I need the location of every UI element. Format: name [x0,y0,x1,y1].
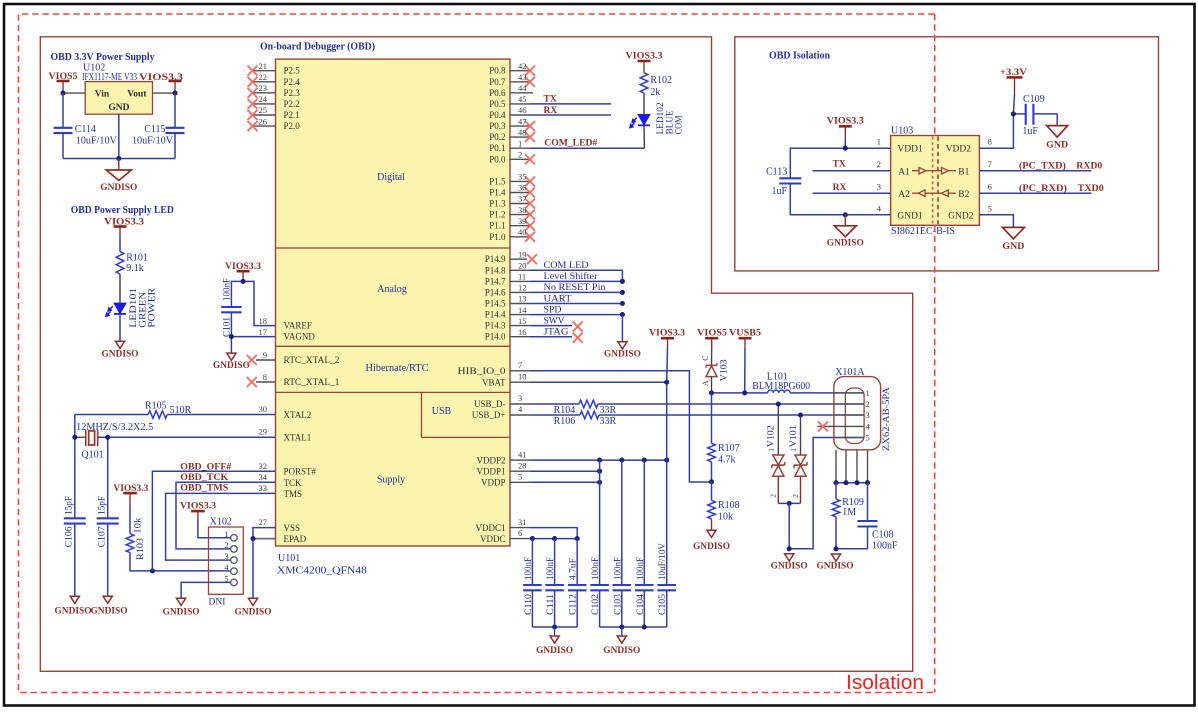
svg-text:GNDISO: GNDISO [603,646,640,656]
junction VDDP1/C102 [597,469,602,474]
svg-text:25: 25 [259,105,268,115]
svg-text:VIOS3.3: VIOS3.3 [104,217,144,227]
wire VDD1 net [790,148,890,178]
isolator U103 internal isolation barrier [932,137,934,225]
svg-text:100nF: 100nF [872,540,898,551]
net TX wire to U103 A1 [813,170,891,172]
U101 USB sub-box [421,392,423,437]
svg-text:22: 22 [259,72,268,82]
svg-text:DNI: DNI [209,597,226,607]
svg-text:5: 5 [518,472,522,482]
svg-text:TXD0: TXD0 [1078,184,1104,194]
ground GNDISO under LED101 [115,341,124,348]
svg-text:1M: 1M [842,507,856,518]
svg-text:10k: 10k [718,512,733,523]
ground GNDISO under C111 [554,627,556,636]
svg-text:B2: B2 [958,190,969,200]
svg-text:V102: V102 [765,425,775,447]
svg-text:R108: R108 [718,500,740,511]
svg-text:6: 6 [988,182,992,192]
wire Vout to VIOS3.3 [153,92,176,94]
svg-text:RX: RX [544,106,558,116]
svg-text:GNDISO: GNDISO [536,646,573,656]
regulator U102 body [85,82,152,115]
pin 21 P2.5 (no connect) [253,70,276,72]
svg-text:OBD Isolation: OBD Isolation [769,51,830,62]
svg-text:P14.9: P14.9 [485,254,506,264]
svg-text:PORST#: PORST# [284,467,317,477]
svg-text:VIOS5: VIOS5 [49,72,78,82]
svg-text:19: 19 [518,249,527,259]
svg-text:1: 1 [789,448,798,452]
svg-text:17: 17 [259,327,268,337]
svg-text:VSS: VSS [284,523,301,533]
wire LED101 to ground [119,314,121,341]
svg-text:32: 32 [259,461,268,471]
junctions on VDDC rail [530,536,535,541]
connector X102 pin 5 [231,579,238,586]
svg-text:P14.6: P14.6 [485,287,506,297]
OBD Isolation region box [735,37,1159,271]
svg-text:TX: TX [833,160,846,170]
pin 10 VBAT wire [510,381,530,383]
svg-text:GNDISO: GNDISO [213,361,250,371]
pin 6 B2 net (PC_RXD) TXD0 wire [979,192,1091,194]
svg-text:8: 8 [263,372,267,382]
junction bus UART [620,301,625,306]
svg-text:10uF/10V: 10uF/10V [658,543,668,580]
wire VDDC ground bus [532,626,577,628]
svg-text:C110: C110 [524,594,534,615]
junction bus SPD [620,312,625,317]
ground GNDISO under R109 [831,554,840,561]
svg-text:+3.3V: +3.3V [1000,68,1027,78]
ground GND at C109 [1047,126,1068,138]
svg-text:P14.5: P14.5 [485,299,506,309]
svg-text:48: 48 [518,127,527,137]
svg-text:C108: C108 [872,530,894,541]
net OBD_TCK wire to TCK [176,482,276,549]
TVS diode V102 [777,404,779,455]
U101 Analog/Hibernate divider [276,345,511,347]
svg-text:42: 42 [518,61,527,71]
resistor R105 and wire to XTAL2 [75,414,148,416]
capacitor C102 [599,460,601,585]
connector X102 pin 4 [231,568,238,575]
ground GNDISO under C106 [70,596,79,603]
wire EPAD node to ground [252,539,254,599]
junction bus No RESET Pin [620,290,625,295]
net RX wire to U103 A2 [813,192,891,194]
ground GNDISO under TVS [785,554,794,561]
power flag VIOS3.3 above R103 [123,492,137,495]
svg-text:2k: 2k [650,87,660,98]
svg-text:3: 3 [877,182,881,192]
capacitor C110 [531,539,533,585]
junctions on VDDP2 rail [597,458,602,463]
svg-text:GNDISO: GNDISO [817,561,854,571]
svg-text:C113: C113 [766,167,787,178]
pin 28 VDDP1 wire [510,470,530,472]
wire R102 to LED102 [643,93,645,115]
svg-text:18: 18 [259,316,268,326]
svg-text:10uF/10V: 10uF/10V [76,136,118,147]
junction bus Level Shifter [620,279,625,284]
svg-text:OBD_OFF#: OBD_OFF# [180,462,231,472]
capacitor C101 [221,306,242,308]
power flag VIOS3.3 above R102 [638,60,651,63]
svg-text:100nF: 100nF [591,557,601,580]
svg-text:2: 2 [866,399,870,409]
wire VDDP ground bus [600,626,667,628]
pin 13 P14.5 net UART wire [510,303,530,305]
wire C113 to GND1 [790,184,890,215]
pin 7 B1 net (PC_TXD) RXD0 wire [979,170,1091,172]
svg-text:39: 39 [518,216,527,226]
svg-text:XMC4200_QFN48: XMC4200_QFN48 [277,566,367,577]
junction crystal left [74,415,76,519]
svg-text:OBD 3.3V Power Supply: OBD 3.3V Power Supply [51,52,155,63]
pin 38 P1.2 (no connect) [510,214,530,216]
svg-text:P0.3: P0.3 [489,121,506,131]
pin 6 VDDC wire [510,538,530,540]
svg-text:VDDC: VDDC [480,534,506,544]
svg-text:COM LED: COM LED [544,261,589,271]
ground GNDISO under R108 [707,530,716,537]
resistor R107 [711,393,713,443]
svg-text:A: A [701,380,710,386]
capacitor C111 [554,539,556,585]
capacitor C106 [64,517,86,519]
pin 1 P0.1 net COM_LED# wire [510,147,530,149]
svg-text:TCK: TCK [284,478,303,488]
ground GND under GND2 [1002,227,1024,239]
svg-text:1uF: 1uF [1022,126,1038,137]
pin 43 P0.7 (no connect) [510,81,530,83]
svg-text:37: 37 [518,194,527,204]
svg-text:COM: COM [675,115,685,134]
svg-text:15: 15 [518,316,527,326]
svg-text:VIOS3.3: VIOS3.3 [180,502,216,512]
pin 23 P2.3 (no connect) [253,92,276,94]
resistor R102 [640,73,648,93]
svg-text:4: 4 [224,562,229,572]
svg-text:VAREF: VAREF [284,321,312,331]
pin 7 HIB_IO_0 wire to R107 node [510,370,530,372]
wire U102 GND stem [118,114,120,158]
svg-text:38: 38 [518,205,527,215]
svg-text:C115: C115 [144,124,165,135]
power flag VUSB5 [739,337,752,340]
pin 41 VDDP2 wire [510,459,530,461]
junction VDDP/C102 [597,480,602,485]
svg-text:2: 2 [791,494,800,498]
junction VSS/EPAD [250,536,255,541]
svg-text:U101: U101 [278,553,300,564]
svg-text:C109: C109 [1023,94,1045,105]
svg-text:16: 16 [518,327,527,337]
pin 24 P2.2 (no connect) [253,103,276,105]
power flag VIOS3.3 (VBAT rail) [661,337,674,340]
junction VIOS5 node [60,91,65,96]
svg-text:GND: GND [1002,242,1024,252]
svg-text:13: 13 [518,294,527,304]
capacitor C105 [666,382,668,585]
svg-text:2: 2 [877,159,881,169]
svg-text:OBD_TMS: OBD_TMS [180,484,228,494]
power flag VIOS5 above V103 [705,337,718,340]
svg-text:U103: U103 [891,125,913,136]
svg-text:VIOS3.3: VIOS3.3 [649,328,685,338]
svg-text:C105: C105 [658,594,668,615]
wire TVS common to ground [778,502,800,504]
svg-text:P1.1: P1.1 [489,221,505,231]
junction V101 on USB D+ wire [798,412,803,417]
pin 42 P0.8 (no connect) [510,70,530,72]
svg-text:P0.5: P0.5 [489,99,506,109]
svg-text:P0.0: P0.0 [489,154,506,164]
svg-text:VDD1: VDD1 [897,145,923,155]
svg-text:24: 24 [259,94,268,104]
svg-text:VIOS5: VIOS5 [697,328,727,338]
svg-text:P2.0: P2.0 [284,121,301,131]
svg-text:34: 34 [259,472,268,482]
svg-text:X102: X102 [210,516,232,527]
svg-text:Isolation: Isolation [846,672,924,694]
svg-text:SWV: SWV [544,316,565,326]
svg-text:XTAL2: XTAL2 [284,410,312,420]
svg-text:R101: R101 [126,252,148,263]
isolator U103 channel direction arrows [912,170,919,172]
pin 26 P2.0 (no connect) [253,125,276,127]
svg-text:Supply: Supply [377,474,405,485]
svg-text:P14.8: P14.8 [485,265,506,275]
pin 15 P14.3 label SWV (no connect) [510,325,530,327]
capacitor C113 [779,177,801,179]
connector X102 pin 3 [231,557,238,564]
pin 48 P0.2 (no connect) [510,136,530,138]
svg-text:44: 44 [518,83,527,93]
svg-text:RTC_XTAL_1: RTC_XTAL_1 [284,377,340,387]
svg-text:47: 47 [518,116,527,126]
wire analog bus to ground [621,315,623,342]
wire VIOS3.3 to R103 [129,504,131,534]
IC U101 body [276,59,511,546]
svg-text:COM_LED#: COM_LED# [544,139,597,149]
svg-text:45: 45 [518,94,527,104]
svg-text:1: 1 [866,388,870,398]
ground GNDISO under analog bus [618,342,627,349]
power flag VIOS3.3 (regulator output) [169,80,182,83]
svg-text:4.7uF: 4.7uF [569,558,579,580]
svg-text:20: 20 [518,261,527,271]
svg-text:P0.8: P0.8 [489,66,506,76]
wire LED102 to COM_LED# net [643,126,645,149]
svg-text:10: 10 [518,372,527,382]
svg-text:RXD0: RXD0 [1076,161,1102,171]
svg-text:30: 30 [259,404,268,414]
junction OBD_OFF#/X102 pin4 [150,568,155,573]
svg-text:VDDC1: VDDC1 [475,523,505,533]
svg-text:GND2: GND2 [948,212,974,222]
svg-text:29: 29 [259,427,268,437]
svg-text:R107: R107 [718,443,740,454]
connector X102 pin 1 [231,535,238,542]
svg-text:P1.2: P1.2 [489,210,505,220]
svg-text:R106: R106 [554,416,576,427]
pin 4 USB_D+ wire to X101A pin 3 [510,414,530,416]
svg-text:VDDP2: VDDP2 [476,455,505,465]
svg-text:No RESET Pin: No RESET Pin [544,283,606,293]
svg-text:P1.0: P1.0 [489,232,506,242]
capacitor C103 [621,460,623,585]
junction crystal right [107,437,109,518]
svg-text:GNDISO: GNDISO [102,350,139,360]
svg-text:9: 9 [263,350,267,360]
junction R109/C108 ground [833,546,838,551]
svg-text:7: 7 [988,159,992,169]
power flag +3.3V [1007,76,1023,79]
svg-text:TMS: TMS [284,489,303,499]
pin 44 P0.6 stub [510,92,533,94]
pin 20 P14.8 net COM LED wire [510,269,530,271]
svg-text:1: 1 [767,448,776,452]
svg-text:HIB_IO_0: HIB_IO_0 [458,366,507,376]
svg-text:31: 31 [518,517,527,527]
svg-text:GNDISO: GNDISO [771,562,808,572]
svg-text:Hibernate/RTC: Hibernate/RTC [366,363,429,374]
junction TVS ground node [787,546,792,551]
ground GNDISO under U103 [844,215,846,226]
svg-text:RX: RX [833,183,847,193]
svg-text:Vin: Vin [95,89,110,99]
TVS diode V101 [800,415,802,455]
svg-text:C: C [701,355,710,360]
svg-text:UART: UART [544,294,572,304]
svg-text:Digital: Digital [377,172,405,183]
svg-text:4.7k: 4.7k [718,455,736,466]
power flag VIOS3.3 (U103 VDD1) [839,125,852,128]
pin 5 GND2 wire to GND [979,215,1013,228]
svg-text:40: 40 [518,227,527,237]
svg-text:21: 21 [259,61,268,71]
wire crystal to XTAL1 [75,436,86,438]
ground GNDISO under C101 [227,353,236,360]
wire ground bus under U102 [63,158,175,160]
isolation boundary (red dashed) [19,14,935,693]
wire C101 to VAGND and ground [230,312,232,353]
svg-text:POWER: POWER [148,287,158,328]
svg-text:8: 8 [988,137,992,147]
svg-text:3: 3 [518,393,522,403]
svg-text:C104: C104 [636,594,646,615]
svg-text:VBAT: VBAT [482,378,506,388]
svg-text:P0.7: P0.7 [489,77,506,87]
svg-text:GND1: GND1 [897,212,923,222]
svg-text:P14.0: P14.0 [485,332,506,342]
svg-text:P2.4: P2.4 [284,77,301,87]
wire shield bus [836,482,868,484]
junction C101/VAGND [229,334,234,339]
svg-text:6: 6 [518,528,522,538]
svg-text:P2.1: P2.1 [284,110,300,120]
svg-text:USB: USB [432,406,452,417]
svg-text:1: 1 [877,137,881,147]
svg-text:On-board Debugger (OBD): On-board Debugger (OBD) [260,41,375,52]
svg-text:15pF: 15pF [65,496,75,515]
svg-text:SI8621EC-B-IS: SI8621EC-B-IS [891,226,955,237]
svg-text:(PC_TXD): (PC_TXD) [1019,160,1066,171]
pin 3 USB_D- wire to X101A pin 2 [510,403,530,405]
pin EPAD stub [253,538,276,540]
svg-text:10k: 10k [133,517,143,533]
resistor R101 [116,252,124,274]
isolator U103 body [891,136,980,226]
svg-text:Vout: Vout [127,89,147,99]
isolation barrier red dashed line through U103 [934,14,936,136]
svg-text:TX: TX [544,95,557,105]
net OBD_OFF# wire to PORST# [152,471,275,571]
junction V103/L101 node [712,392,768,394]
svg-text:12MHZ/S/3.2X2.5: 12MHZ/S/3.2X2.5 [76,422,153,433]
svg-text:28: 28 [518,461,527,471]
resistor R108 [711,482,713,501]
svg-text:GNDISO: GNDISO [604,349,641,359]
svg-text:3: 3 [224,551,228,561]
svg-text:GNDISO: GNDISO [100,183,137,193]
svg-text:VDD2: VDD2 [946,145,972,155]
pin 25 P2.1 (no connect) [253,114,276,116]
svg-text:ZX62-AB-5PA: ZX62-AB-5PA [882,387,892,451]
svg-text:100nF: 100nF [524,557,534,580]
svg-text:2: 2 [518,150,522,160]
svg-text:7: 7 [518,360,522,370]
junction VIOS3.3/C101 [241,279,246,284]
svg-text:100nF: 100nF [222,278,232,301]
pin 31 VDDC1 wire [510,527,530,529]
svg-text:VDDP1: VDDP1 [476,466,505,476]
ground GNDISO under C103 [621,627,623,636]
svg-text:V103: V103 [719,359,729,382]
svg-text:P14.7: P14.7 [485,276,506,286]
svg-text:GND: GND [108,103,129,113]
capacitor C104 [643,460,645,585]
svg-text:R102: R102 [650,75,672,86]
svg-text:P14.4: P14.4 [485,310,506,320]
pin 14 P14.4 net SPD wire [510,314,530,316]
svg-text:R105: R105 [145,401,167,412]
ground GNDISO under C107 [103,596,112,603]
diode V103 (schottky) [711,348,713,365]
svg-text:36: 36 [518,183,527,193]
svg-text:GND: GND [1046,141,1068,151]
pin 12 P14.6 net No RESET Pin wire [510,291,530,293]
svg-text:VAGND: VAGND [284,332,316,342]
wire VSS to ground node [253,528,276,539]
svg-text:OBD_TCK: OBD_TCK [180,473,229,483]
pin 22 P2.4 (no connect) [253,81,276,83]
wire R101 to LED101 [119,274,121,303]
svg-text:P1.4: P1.4 [489,188,506,198]
svg-text:C103: C103 [613,594,623,615]
svg-text:C106: C106 [65,526,75,547]
U101 Hibernate/Supply divider [276,391,511,393]
svg-text:P1.3: P1.3 [489,199,506,209]
pin 36 P1.4 (no connect) [510,192,530,194]
svg-text:GNDISO: GNDISO [235,608,272,618]
pin 45 P0.5 net TX wire [510,103,530,105]
svg-text:11: 11 [518,272,526,282]
